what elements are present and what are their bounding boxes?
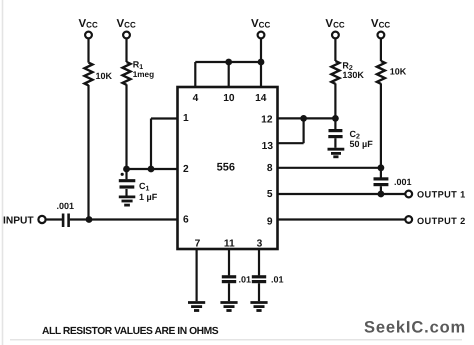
svg-text:1: 1 <box>183 113 189 124</box>
svg-text:7: 7 <box>195 239 201 250</box>
svg-text:4: 4 <box>193 93 199 104</box>
svg-text:SeekIC.com: SeekIC.com <box>364 319 466 337</box>
svg-text:VCC: VCC <box>79 18 98 30</box>
svg-text:12: 12 <box>261 114 273 125</box>
svg-text:13: 13 <box>262 141 274 152</box>
svg-text:556: 556 <box>217 162 235 174</box>
svg-text:VCC: VCC <box>117 18 136 30</box>
svg-text:50 µF: 50 µF <box>350 139 374 149</box>
svg-text:1meg: 1meg <box>133 70 154 79</box>
svg-text:9: 9 <box>267 216 273 227</box>
svg-text:VCC: VCC <box>371 18 390 30</box>
svg-text:3: 3 <box>257 239 263 250</box>
svg-text:5: 5 <box>267 189 273 200</box>
svg-text:14: 14 <box>255 93 267 104</box>
svg-text:VCC: VCC <box>251 18 270 30</box>
svg-text:ALL RESISTOR VALUES ARE IN OHM: ALL RESISTOR VALUES ARE IN OHMS <box>42 326 219 337</box>
svg-text:6: 6 <box>183 215 189 226</box>
svg-text:INPUT: INPUT <box>3 216 34 227</box>
svg-text:OUTPUT 2: OUTPUT 2 <box>417 216 466 226</box>
svg-text:10K: 10K <box>96 71 113 81</box>
svg-text:10K: 10K <box>390 67 407 77</box>
svg-text:.001: .001 <box>394 177 412 187</box>
svg-text:1 µF: 1 µF <box>139 192 158 202</box>
svg-text:11: 11 <box>224 239 235 250</box>
svg-text:.001: .001 <box>57 201 75 211</box>
svg-text:.01: .01 <box>271 275 284 285</box>
svg-text:8: 8 <box>267 163 273 174</box>
svg-text:2: 2 <box>183 164 189 175</box>
svg-text:VCC: VCC <box>325 18 344 30</box>
svg-text:OUTPUT 1: OUTPUT 1 <box>417 190 466 200</box>
svg-text:.01: .01 <box>239 275 252 285</box>
svg-text:130K: 130K <box>342 70 364 80</box>
svg-text:10: 10 <box>223 93 235 104</box>
